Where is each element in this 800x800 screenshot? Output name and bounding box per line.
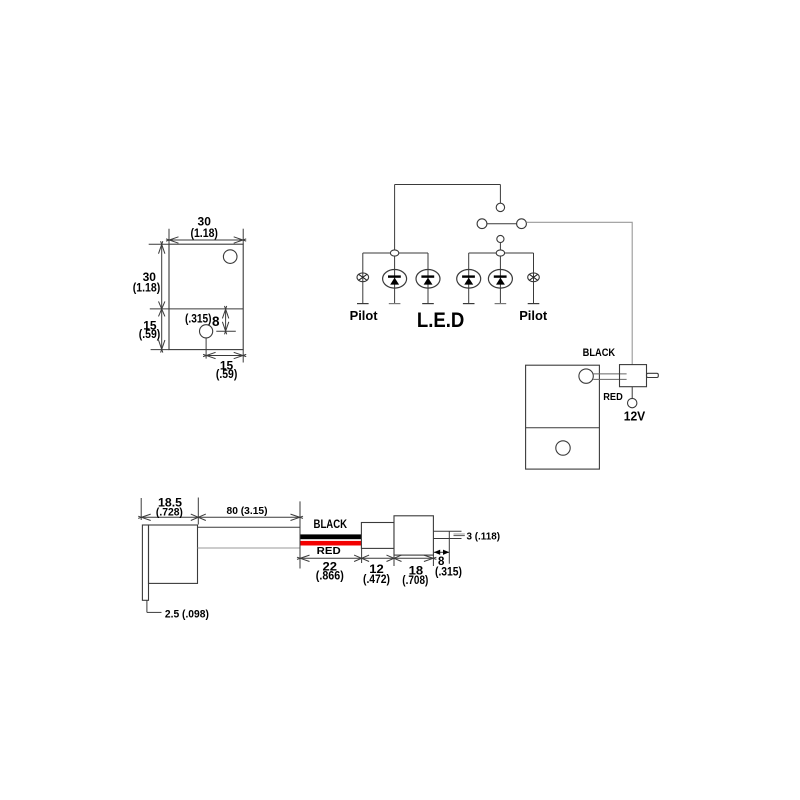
panel front view outline xyxy=(169,244,243,349)
label 12V xyxy=(624,409,646,423)
svg-text:12V: 12V xyxy=(624,409,646,423)
svg-text:(.708): (.708) xyxy=(402,575,428,587)
svg-text:(.59): (.59) xyxy=(139,329,161,341)
ground LED D1 xyxy=(389,303,401,305)
dimension 18.5 (.728) xyxy=(138,496,206,525)
LED D2 xyxy=(416,270,440,289)
connector pins side view xyxy=(433,531,464,538)
terminal circle 12V xyxy=(628,398,637,407)
wire LED D4 drop xyxy=(499,256,501,304)
svg-text:RED: RED xyxy=(603,392,623,403)
svg-text:(.315): (.315) xyxy=(185,313,212,325)
svg-text:2.5 (.098): 2.5 (.098) xyxy=(165,609,209,621)
svg-text:RED: RED xyxy=(317,545,341,557)
svg-text:30: 30 xyxy=(198,214,212,228)
label RED xyxy=(603,392,623,403)
dimension 15 (.59) hole position bottom xyxy=(203,338,246,381)
dimension 30 (1.18) width top xyxy=(166,214,246,244)
switch S1 top contact xyxy=(496,203,504,211)
label 3 (.118) pin size xyxy=(467,531,501,542)
wire LED D1 drop xyxy=(394,256,396,304)
svg-text:(.59): (.59) xyxy=(216,369,238,381)
side view body xyxy=(149,525,198,583)
LED D4 xyxy=(488,270,512,289)
ground pilot right xyxy=(528,303,540,305)
LED D1 xyxy=(383,270,407,289)
label Pilot left xyxy=(350,308,379,323)
svg-text:L.E.D: L.E.D xyxy=(417,309,465,332)
power connector pin xyxy=(647,373,659,377)
wires to power connector xyxy=(593,374,626,380)
wire top horizontal xyxy=(395,184,501,186)
panel step line xyxy=(150,308,243,310)
panel corner hole xyxy=(223,250,237,264)
wire from switch to power connector xyxy=(526,222,632,364)
switch S1 lever xyxy=(477,219,526,229)
svg-text:8: 8 xyxy=(212,314,220,329)
svg-text:80 (3.15): 80 (3.15) xyxy=(227,505,268,517)
dimension 30 (1.18) height left xyxy=(133,241,169,349)
power connector body xyxy=(620,365,647,387)
svg-text:(.315): (.315) xyxy=(435,567,462,579)
dimension 18 (.708) xyxy=(394,555,436,587)
pilot lamp left xyxy=(357,273,369,282)
switch S1 lower contact xyxy=(497,235,504,242)
panel hole B 8mm xyxy=(200,325,213,338)
wire right LED bus xyxy=(469,252,534,254)
node junction left xyxy=(390,250,398,256)
label L.E.D xyxy=(417,309,465,332)
side view mounting tab xyxy=(142,525,148,600)
svg-text:Pilot: Pilot xyxy=(519,308,548,323)
wire black xyxy=(300,534,362,539)
ground LED D3 xyxy=(463,303,475,305)
label BLACK xyxy=(583,347,616,359)
dimension 22 (.866) xyxy=(297,548,369,582)
dimension 12 (.472) xyxy=(362,555,402,586)
ground pilot left xyxy=(357,303,369,305)
label (.315) hole diameter xyxy=(185,313,212,325)
svg-text:BLACK: BLACK xyxy=(583,347,616,359)
wire LED D3 drop xyxy=(468,253,470,304)
switch body rear view xyxy=(526,365,600,469)
connector section 12mm xyxy=(361,523,394,549)
wire 12V drop xyxy=(631,387,633,399)
node junction right xyxy=(496,250,504,256)
label RED wire xyxy=(317,545,341,557)
ground LED D2 xyxy=(422,303,434,305)
switch body terminal circle xyxy=(579,369,593,383)
dimension 2.5 (.098) leader xyxy=(147,600,209,620)
svg-text:(.866): (.866) xyxy=(316,571,344,583)
switch body lower hole xyxy=(556,441,570,455)
wire switch drop xyxy=(499,185,501,204)
label Pilot right xyxy=(519,308,548,323)
wire red xyxy=(300,541,362,546)
cable outline top xyxy=(198,526,300,528)
ground LED D4 xyxy=(495,303,507,305)
dimension 8 hole offset xyxy=(212,306,236,334)
connector section 18mm xyxy=(394,516,433,555)
wire lower contact to junction xyxy=(499,243,501,250)
LED D3 xyxy=(457,270,481,289)
dimension 15 (.59) height left xyxy=(139,319,169,353)
dimension 8 (.315) pin length xyxy=(434,531,462,579)
wire left LED bus xyxy=(363,252,428,254)
label BLACK wire xyxy=(314,517,348,531)
wire left vertical to junction xyxy=(394,185,396,251)
svg-text:BLACK: BLACK xyxy=(314,517,348,531)
wire pilot left drop xyxy=(362,253,364,304)
svg-text:Pilot: Pilot xyxy=(350,308,379,323)
svg-text:(1.18): (1.18) xyxy=(133,282,161,294)
svg-text:(.472): (.472) xyxy=(363,574,390,586)
pilot lamp right xyxy=(528,273,540,282)
switch body step line xyxy=(526,427,600,429)
wire LED D2 drop xyxy=(427,253,429,304)
svg-text:3 (.118): 3 (.118) xyxy=(467,531,501,542)
cable outline bottom xyxy=(198,547,300,549)
svg-text:(.728): (.728) xyxy=(156,507,183,519)
wire pilot right drop xyxy=(533,253,535,304)
dimension 80 (3.15) xyxy=(198,501,303,568)
svg-text:(1.18): (1.18) xyxy=(190,228,218,240)
